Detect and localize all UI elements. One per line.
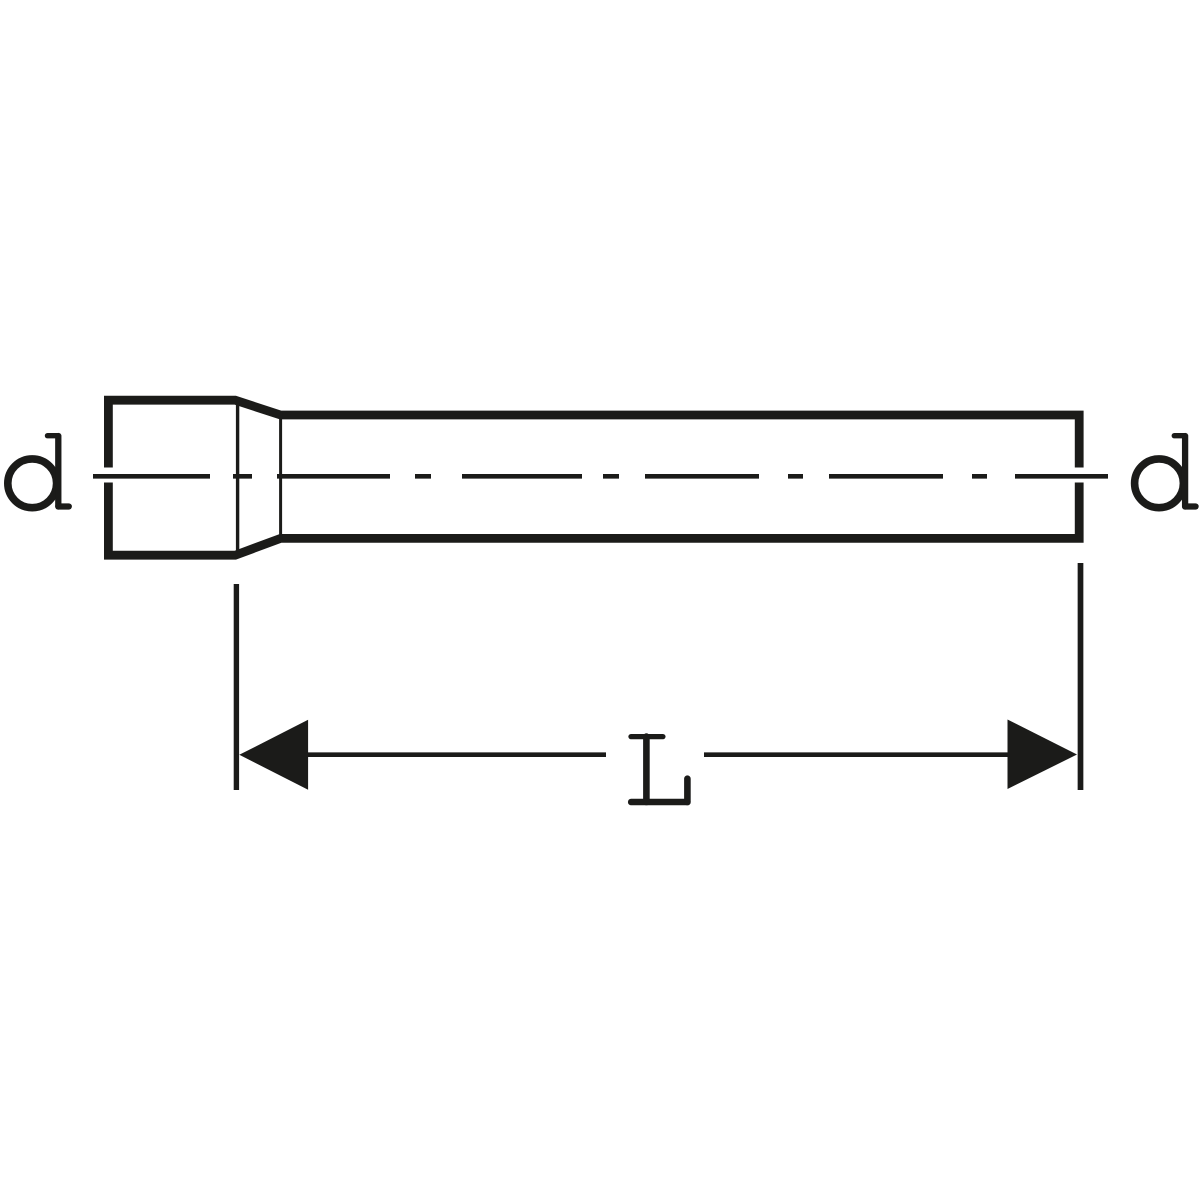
extension line left (from socket mouth): [234, 584, 239, 790]
taper end edge line: [279, 413, 282, 541]
dimension line right segment: [704, 752, 1009, 757]
socket inner edge line: [236, 404, 239, 552]
arrowhead left: [239, 720, 308, 790]
label L (length): [631, 737, 687, 802]
arrowhead right: [1008, 720, 1078, 790]
pipe outline upper half (socket mouth, taper, barrel top, right end): [108, 400, 1079, 467]
label d (left diameter): [8, 436, 69, 508]
dimension line left segment: [307, 752, 607, 757]
label d (right diameter): [1135, 436, 1196, 508]
extension line right (from pipe end): [1078, 563, 1084, 790]
pipe outline lower half (socket mouth, taper, barrel bottom, right end): [108, 483, 1079, 556]
centerline (dash-dot pipe axis): [93, 474, 1108, 479]
